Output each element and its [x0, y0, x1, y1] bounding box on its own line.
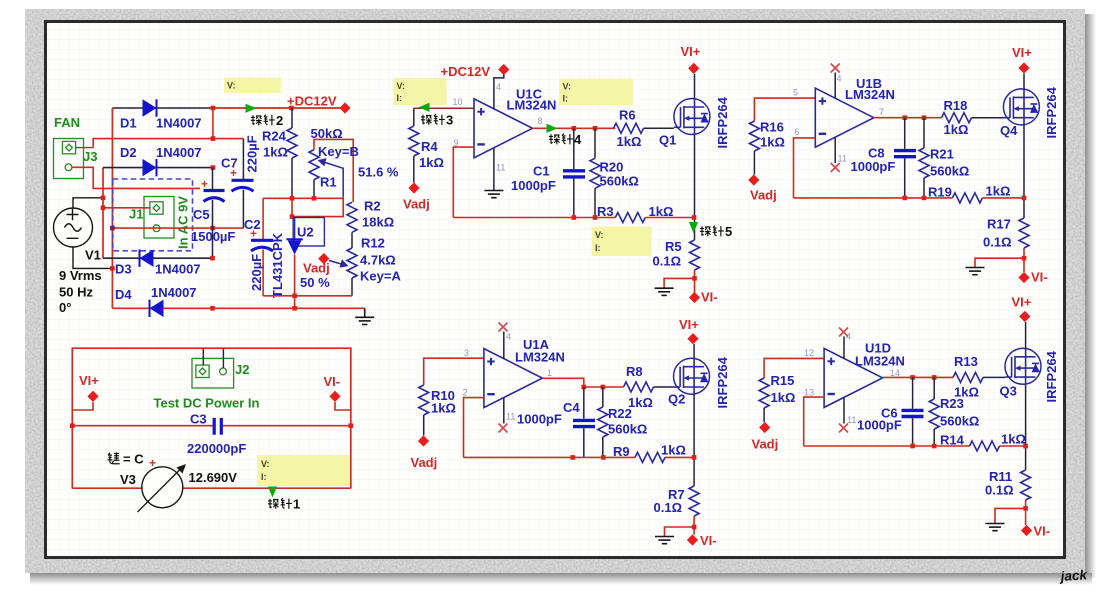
wire D2 row — [103, 167, 213, 169]
label R19 1k — [928, 184, 1010, 200]
probe arrow 探针5 — [689, 222, 698, 233]
wire U2 cathode box — [290, 197, 344, 219]
svg-text:11: 11 — [506, 412, 515, 422]
capacitor C3 — [214, 418, 221, 435]
wire R17 ground stub — [975, 258, 1024, 267]
label R11 0.1 — [985, 469, 1014, 498]
svg-text:4: 4 — [506, 332, 511, 342]
svg-text:560kΩ: 560kΩ — [940, 414, 979, 429]
wire Q2 source down — [692, 394, 697, 486]
wire U1C +input — [414, 107, 474, 109]
svg-text:D1: D1 — [120, 116, 137, 131]
wire U1B -input — [794, 138, 816, 198]
svg-text:R17: R17 — [987, 217, 1011, 232]
label C3 220000pF — [187, 412, 246, 457]
svg-text:jack: jack — [1058, 567, 1089, 584]
wire U2 anode — [294, 255, 296, 296]
svg-text:IRFP264: IRFP264 — [1044, 86, 1059, 138]
probe box 探针3 — [394, 78, 447, 105]
no-connect U1B pin11 — [831, 163, 840, 172]
probe box 探针4 — [559, 79, 633, 106]
svg-text:C7: C7 — [221, 156, 238, 171]
wire R11 ground stub — [995, 508, 1026, 523]
MOSFET Q2 IRFP264 — [674, 358, 710, 394]
svg-text:1000pF: 1000pF — [851, 159, 896, 174]
label R2 18k — [362, 199, 394, 230]
svg-text:1: 1 — [547, 368, 552, 378]
potentiometer R1 — [309, 139, 353, 202]
net label Vadj U1C — [403, 182, 430, 211]
label R12 4.7k Key=A 50% — [300, 236, 401, 291]
svg-text:R4: R4 — [421, 139, 438, 154]
dashed block In AC 9V — [113, 179, 193, 251]
label R20 560k — [600, 160, 639, 189]
svg-text:14: 14 — [890, 368, 900, 378]
wire node A vertical x103 — [102, 168, 104, 259]
wire Vref row y198.3 — [263, 196, 343, 201]
wire U1D +input — [764, 358, 824, 378]
pin labels U1D — [804, 332, 900, 426]
ground main rail — [355, 308, 374, 324]
label R18 1k — [944, 98, 969, 137]
wire Q4 drain to VI+ — [1023, 74, 1025, 90]
probe label 探针5 — [700, 224, 732, 239]
ground R17 — [966, 268, 985, 275]
resistor R7 — [689, 486, 699, 535]
wire U1D pin4 — [843, 337, 845, 359]
label C7 220uF — [221, 135, 260, 172]
TL431 U2 — [286, 218, 324, 255]
svg-text:13: 13 — [804, 388, 814, 398]
svg-text:In AC 9V: In AC 9V — [176, 196, 191, 249]
svg-text:R8: R8 — [626, 364, 643, 379]
resistor R23 — [929, 377, 939, 446]
svg-text:1kΩ: 1kΩ — [419, 155, 444, 170]
svg-text:VI-: VI- — [1034, 524, 1051, 539]
svg-text:LM324N: LM324N — [515, 350, 565, 365]
label U1C LM324N — [507, 87, 557, 113]
label R24 1k — [262, 129, 288, 160]
svg-text:VI+: VI+ — [679, 317, 699, 332]
wire U1A +input — [424, 358, 484, 385]
wire D4 row / ground rail — [112, 306, 364, 311]
probe box V: 探针2 — [224, 78, 281, 94]
svg-text:1: 1 — [293, 497, 300, 512]
wire J1 circle pin row / C-rail y228.1 — [110, 226, 243, 231]
label D1 — [120, 116, 202, 131]
MOSFET Q1 IRFP264 — [674, 99, 710, 135]
wire Q4 source down — [1022, 125, 1027, 218]
svg-text:= C: = C — [123, 452, 144, 467]
svg-text:C4: C4 — [563, 400, 580, 415]
label C4 1000pF — [517, 400, 580, 427]
svg-text:0.1Ω: 0.1Ω — [653, 254, 682, 269]
wire J3 circle pin branch — [72, 167, 200, 188]
label R14 1k — [940, 432, 1026, 448]
svg-text:5: 5 — [793, 88, 798, 98]
label D4 — [115, 285, 197, 302]
label C5 1500uF — [191, 207, 235, 244]
wire regulator bottom row y295.8 — [263, 294, 352, 299]
svg-text:VI+: VI+ — [79, 373, 99, 388]
wire D3 row — [103, 256, 215, 261]
svg-text:1000pF: 1000pF — [511, 178, 556, 193]
svg-text:Q4: Q4 — [1000, 123, 1018, 138]
svg-text:1kΩ: 1kΩ — [617, 134, 642, 149]
svg-text:V3: V3 — [120, 472, 136, 487]
svg-text:3: 3 — [446, 113, 453, 128]
no-connect U1A pin11 — [499, 424, 508, 433]
svg-text:220µF: 220µF — [245, 135, 260, 172]
label Test DC Power In — [154, 396, 260, 411]
label J2 — [235, 362, 249, 377]
diode D2 1N4007 — [143, 159, 157, 176]
svg-text:VI+: VI+ — [1012, 295, 1032, 310]
svg-text:Vadj: Vadj — [752, 437, 779, 452]
label FAN — [54, 115, 80, 130]
label U1D LM324N — [855, 341, 905, 369]
resistor R8 — [624, 382, 674, 392]
label V1 9Vrms 50Hz 0deg — [59, 248, 102, 316]
probe arrow 探针3 — [419, 103, 430, 112]
label R16 1k — [760, 120, 785, 150]
svg-text:+: + — [149, 456, 156, 470]
wire V1 top terminal — [73, 196, 105, 209]
svg-text:1kΩ: 1kΩ — [1001, 432, 1026, 447]
probe arrow 探针1 — [268, 487, 277, 498]
svg-text:4: 4 — [574, 132, 582, 147]
wire U1B output rail — [874, 115, 942, 120]
net label VI+ Q1 — [681, 44, 701, 74]
svg-text:I:: I: — [595, 243, 601, 253]
net label Vadj R12 — [303, 253, 330, 276]
wire J1 square pin — [101, 206, 150, 211]
resistor R2 — [347, 202, 357, 248]
resistor R17 — [1019, 218, 1029, 272]
no-connect U1B pin4 — [831, 64, 840, 73]
label R4 1k — [419, 139, 444, 170]
svg-text:R18: R18 — [944, 98, 968, 113]
svg-text:I:: I: — [563, 94, 569, 104]
label D3 — [115, 262, 201, 277]
svg-text:VI-: VI- — [1031, 270, 1048, 285]
svg-text:220µF: 220µF — [249, 254, 264, 291]
probe box 探针5 — [592, 227, 652, 257]
MOSFET Q3 IRFP264 — [1005, 348, 1041, 384]
wire U1A feedback rail — [464, 455, 636, 460]
no-connect U1D pin4 — [839, 328, 848, 337]
label R13 1k — [954, 354, 979, 400]
svg-text:1kΩ: 1kΩ — [661, 443, 686, 458]
svg-text:1kΩ: 1kΩ — [263, 145, 288, 160]
pin labels U1C — [453, 82, 543, 173]
svg-text:V1: V1 — [85, 248, 101, 263]
label 键 = C — [108, 452, 145, 467]
op-amp U1A — [484, 349, 543, 408]
svg-text:7: 7 — [879, 107, 884, 117]
op-amp U1B — [815, 88, 874, 147]
probe label 探针3 — [421, 113, 453, 128]
wire Q3 drain to VI+ — [1025, 322, 1027, 349]
probe label 探针1 — [268, 497, 300, 512]
label TL431CPK rotated — [270, 232, 285, 298]
wire U1C -input — [453, 147, 474, 217]
wire VI- stub — [335, 402, 351, 410]
net label VI- Q2 — [687, 533, 717, 548]
label IRFP264 Q2 — [715, 356, 730, 408]
svg-text:1kΩ: 1kΩ — [431, 401, 456, 416]
svg-text:V:: V: — [397, 81, 406, 91]
resistor R16 — [749, 121, 759, 175]
svg-text:LM324N: LM324N — [855, 354, 905, 369]
svg-text:1N4007: 1N4007 — [156, 145, 202, 160]
label IRFP264 Q3 — [1044, 350, 1059, 402]
wire node B vertical x112.4 — [111, 108, 113, 308]
wire U1D feedback rail — [804, 444, 970, 449]
svg-text:Q1: Q1 — [659, 133, 676, 148]
ground R11 — [986, 524, 1005, 531]
label R10 1k — [431, 388, 456, 416]
svg-text:4: 4 — [846, 332, 851, 342]
net label VI- Q4 — [1018, 270, 1047, 285]
label Q1 — [659, 133, 676, 148]
label C1 1000pF — [511, 164, 556, 194]
voltmeter V3 — [138, 456, 187, 512]
svg-text:V:: V: — [261, 459, 270, 469]
connector J1 — [144, 197, 174, 239]
diode D4 1N4007 — [150, 300, 164, 317]
svg-text:R16: R16 — [760, 120, 784, 135]
capacitor C7 — [230, 139, 254, 229]
svg-text:Vadj: Vadj — [750, 188, 777, 203]
connector J2 — [192, 358, 234, 388]
svg-text:IRFP264: IRFP264 — [715, 96, 730, 148]
wire U1B feedback rail — [794, 196, 953, 201]
label Q3 — [1000, 384, 1017, 399]
wire J2 pin stubs — [203, 348, 223, 368]
svg-text:51.6 %: 51.6 % — [358, 165, 399, 180]
resistor R19 — [952, 193, 1024, 203]
label R5 0.1 — [653, 239, 682, 269]
svg-text:11: 11 — [847, 415, 856, 425]
svg-text:6: 6 — [795, 127, 800, 137]
wire FAN +12V branch y138.6 — [93, 139, 243, 148]
label R8 1k — [626, 364, 653, 410]
wire D1 row — [112, 107, 212, 109]
label U2 — [297, 225, 314, 240]
svg-text:2: 2 — [463, 388, 468, 398]
svg-text:1N4007: 1N4007 — [156, 116, 202, 131]
svg-text:+DC12V: +DC12V — [287, 94, 337, 109]
svg-text:U2: U2 — [297, 225, 314, 240]
op-amp U1D — [824, 348, 883, 407]
resistor R4 — [409, 108, 419, 182]
junction on DC rail at R24 — [289, 106, 294, 111]
svg-text:R15: R15 — [771, 373, 795, 388]
resistor R15 — [759, 378, 769, 422]
label J3 — [83, 149, 97, 164]
svg-text:J3: J3 — [83, 149, 97, 164]
no-connect U1A pin4 — [499, 323, 508, 332]
capacitor C5 — [201, 168, 225, 259]
capacitor C4 — [573, 387, 595, 457]
label U1A LM324N — [515, 337, 565, 365]
svg-text:FAN: FAN — [54, 115, 80, 130]
wire R5 ground stub — [664, 278, 694, 288]
R12 wiper arrow — [329, 259, 349, 267]
svg-text:9 Vrms: 9 Vrms — [59, 268, 102, 283]
wire +DC12V rail y108 — [213, 107, 345, 109]
svg-text:560kΩ: 560kΩ — [930, 164, 969, 179]
capacitor C2 — [250, 198, 273, 295]
diode D1 1N4007 — [143, 99, 157, 116]
svg-text:R20: R20 — [600, 160, 624, 175]
ground U1C pin11 — [484, 191, 503, 198]
svg-text:560kΩ: 560kΩ — [600, 174, 639, 189]
label D2 — [120, 145, 202, 160]
net label VI+ Q2 — [679, 317, 699, 344]
ground R7 — [655, 537, 674, 544]
net label VI- Q3 — [1021, 524, 1050, 539]
wire U1A -input — [464, 398, 484, 458]
svg-text:Test DC Power In: Test DC Power In — [154, 396, 260, 411]
svg-text:V:: V: — [563, 82, 572, 92]
wire U1D -input — [804, 397, 824, 446]
svg-text:IRFP264: IRFP264 — [715, 356, 730, 408]
svg-text:1kΩ: 1kΩ — [771, 390, 796, 405]
svg-text:+: + — [201, 177, 208, 191]
svg-text:R2: R2 — [364, 199, 381, 214]
no-connect U1D pin11 — [839, 424, 848, 433]
diode D3 1N4007 — [140, 250, 154, 267]
svg-text:R24: R24 — [262, 129, 287, 144]
label J1 — [129, 207, 143, 222]
svg-text:+DC12V: +DC12V — [441, 64, 491, 79]
svg-text:D2: D2 — [120, 145, 137, 160]
resistor R22 — [598, 387, 608, 457]
svg-text:0°: 0° — [59, 300, 71, 315]
svg-text:R6: R6 — [619, 108, 636, 123]
label C2 220uF — [244, 217, 264, 291]
wire U1A pin4 — [503, 332, 505, 360]
net label Vadj U1B — [748, 174, 777, 202]
svg-text:R13: R13 — [954, 354, 978, 369]
svg-text:R19: R19 — [928, 185, 952, 200]
svg-text:VI-: VI- — [324, 374, 341, 389]
J2 square pin — [196, 365, 209, 377]
svg-text:2: 2 — [276, 113, 283, 128]
svg-text:50 Hz: 50 Hz — [59, 285, 93, 300]
svg-text:LM324N: LM324N — [507, 98, 557, 113]
svg-text:V:: V: — [227, 81, 236, 91]
wire test loop rectangle — [72, 348, 351, 488]
svg-text:IRFP264: IRFP264 — [1044, 350, 1059, 402]
probe label 探针2 — [251, 113, 283, 128]
label U1B LM324N — [845, 76, 895, 102]
pin labels U1B — [793, 74, 884, 164]
svg-text:10: 10 — [453, 97, 463, 107]
net label Vadj U1A — [411, 435, 438, 470]
label R7 0.1 — [654, 487, 685, 515]
op-amp U1C — [474, 99, 533, 158]
wire U1C pin11 to ground — [493, 148, 495, 191]
svg-text:11: 11 — [496, 163, 505, 173]
net label VI+ J2 — [79, 373, 99, 402]
wire U1C output rail — [533, 126, 616, 131]
svg-text:220000pF: 220000pF — [187, 441, 246, 456]
label IRFP264 Q1 — [715, 96, 730, 148]
svg-text:1500µF: 1500µF — [191, 229, 235, 244]
svg-text:12.690V: 12.690V — [189, 470, 238, 485]
svg-text:50kΩ: 50kΩ — [311, 126, 343, 141]
svg-text:11: 11 — [838, 154, 847, 164]
potentiometer R12 — [347, 248, 357, 296]
svg-text:1000pF: 1000pF — [517, 412, 562, 427]
wire U1B pin4 — [834, 73, 836, 99]
capacitor C1 — [563, 128, 585, 217]
pin labels U1A — [463, 332, 553, 422]
svg-text:1kΩ: 1kΩ — [986, 184, 1011, 199]
svg-text:0.1Ω: 0.1Ω — [654, 500, 683, 515]
label In AC 9V — [176, 196, 191, 249]
svg-text:R9: R9 — [613, 444, 630, 459]
svg-text:5: 5 — [725, 224, 732, 239]
svg-text:1kΩ: 1kΩ — [760, 135, 785, 150]
wire VI+ stub — [72, 402, 93, 410]
svg-text:R21: R21 — [930, 147, 954, 162]
ground R5 — [655, 288, 674, 295]
label R15 1k — [771, 373, 796, 405]
wire Q2 drain to VI+ — [693, 344, 695, 359]
svg-text:R5: R5 — [665, 239, 682, 254]
junction on DC rail at C7 branch — [211, 106, 216, 111]
svg-text:R12: R12 — [361, 236, 385, 251]
wire U1B pin11 — [834, 138, 836, 164]
label R17 0.1 — [983, 217, 1012, 250]
resistor R13 — [953, 372, 1005, 382]
svg-text:C1: C1 — [533, 164, 550, 179]
wire drop to ground rail — [292, 296, 297, 311]
net label VI- J2 — [324, 374, 341, 402]
label R9 1k — [613, 443, 686, 460]
wire U1A pin11 — [503, 398, 505, 424]
svg-text:1kΩ: 1kΩ — [954, 385, 979, 400]
label R22 560k — [608, 406, 647, 437]
svg-text:R14: R14 — [940, 433, 965, 448]
svg-text:Vadj: Vadj — [403, 197, 430, 212]
svg-text:LM324N: LM324N — [845, 87, 895, 102]
resistor R24 — [287, 108, 297, 198]
svg-text:560kΩ: 560kΩ — [608, 422, 647, 437]
svg-text:12: 12 — [804, 348, 814, 358]
svg-text:VI+: VI+ — [1012, 45, 1032, 60]
label IRFP264 Q4 — [1044, 86, 1059, 138]
label R23 560k — [940, 396, 979, 429]
wire U1D output rail — [883, 375, 953, 380]
wire J3 square pin to +12V branch — [76, 147, 94, 149]
svg-text:0.1Ω: 0.1Ω — [983, 235, 1012, 250]
J1 circle pin — [153, 225, 160, 232]
label C6 1000pF — [857, 406, 902, 433]
J3 square pin — [62, 141, 75, 153]
net label VI- Q1 — [689, 290, 718, 305]
J1 square pin — [150, 202, 163, 214]
junction C7 top branch — [211, 108, 216, 141]
svg-text:1000pF: 1000pF — [857, 418, 902, 433]
AC source V1 — [54, 208, 93, 247]
net label VI+ Q4 — [1012, 45, 1032, 74]
resistor R3 — [615, 213, 694, 223]
